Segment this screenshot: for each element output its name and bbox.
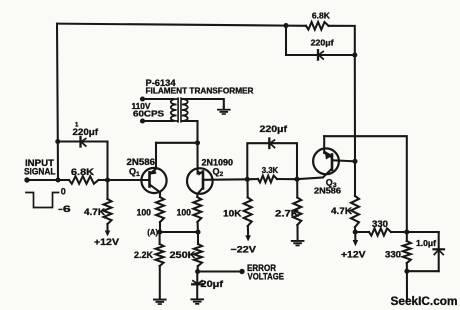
ground below 20uf bbox=[190, 298, 204, 304]
supply -22V arrow bbox=[247, 226, 249, 236]
wire node A to 2.2K bbox=[159, 232, 161, 244]
node input junction bbox=[55, 177, 60, 182]
waveform input step bbox=[26, 193, 59, 208]
transistor Q1 circle bbox=[141, 168, 166, 193]
node collector rail junction bbox=[195, 140, 200, 145]
svg-text:SIGNAL: SIGNAL bbox=[24, 166, 56, 176]
svg-text:250K: 250K bbox=[170, 250, 196, 260]
transistor Q2 circle bbox=[187, 168, 213, 194]
ground transformer secondary bbox=[217, 109, 231, 115]
transistor Q3 circle bbox=[313, 148, 339, 174]
wire rail up to transformer bbox=[196, 121, 198, 143]
wire 220uf mid branch bbox=[247, 143, 297, 179]
wire 330V bottom lead bbox=[406, 263, 408, 271]
transistor Q3 base bar bbox=[331, 155, 334, 170]
svg-text:0: 0 bbox=[61, 187, 66, 197]
inductor transformer secondary coil bbox=[182, 99, 188, 121]
resistor 4.7K right bbox=[351, 196, 359, 227]
svg-text:330: 330 bbox=[385, 250, 401, 260]
wire Q3 top lead bbox=[323, 136, 325, 153]
svg-text:3.3K: 3.3K bbox=[262, 166, 279, 175]
wire combo down to Q3 bbox=[354, 55, 356, 161]
svg-text:220μf: 220μf bbox=[311, 39, 334, 48]
wire Q3 base lead bbox=[297, 178, 323, 180]
capacitor 20uf plate bbox=[192, 283, 203, 285]
svg-text:20μf: 20μf bbox=[201, 279, 225, 289]
resistor 2.2K bbox=[156, 244, 164, 266]
wire Q2 base lead bbox=[203, 178, 247, 181]
wire 1.0uf right branch bbox=[438, 232, 440, 271]
wire Q3 collector rail bbox=[324, 136, 407, 232]
resistor 6.8K top bbox=[306, 22, 329, 30]
node 330V bottom junction bbox=[404, 269, 409, 274]
ground below 2.2K bbox=[153, 299, 167, 305]
svg-text:220μf: 220μf bbox=[260, 124, 289, 134]
resistor 10K bbox=[244, 198, 252, 227]
svg-text:Q2: Q2 bbox=[213, 166, 224, 178]
node combo bottom right bbox=[352, 52, 357, 57]
svg-text:6.8K: 6.8K bbox=[312, 11, 330, 20]
transistor Q1 base bar bbox=[148, 172, 151, 186]
transistor Q1 collector diagonal bbox=[150, 169, 156, 174]
wire Q1 collector up bbox=[155, 143, 157, 169]
svg-text:Q1: Q1 bbox=[129, 167, 140, 179]
resistor 100 Q1 bbox=[156, 197, 164, 222]
wire 6.8K top leads bbox=[286, 25, 306, 27]
supply +12V left arrow bbox=[106, 224, 108, 232]
wire 1.0uf loop bottom bbox=[407, 270, 439, 272]
wire combo bottom bbox=[286, 54, 355, 56]
wire primary bottom lead bbox=[143, 120, 174, 122]
wire 250K to error node bbox=[197, 266, 199, 272]
wire 6.8K to Q1 base bbox=[99, 179, 150, 181]
svg-text:1.0μf: 1.0μf bbox=[416, 238, 436, 248]
wire collector rail Q1-Q2 bbox=[156, 142, 198, 144]
wire 2.2K to ground bbox=[159, 266, 161, 299]
svg-text:2.7K: 2.7K bbox=[275, 208, 299, 218]
resistor 330 horizontal bbox=[369, 228, 391, 235]
wire 100 Q2 to node A bbox=[197, 222, 199, 232]
wire node A to 250K bbox=[197, 232, 199, 244]
wire left vertical bbox=[57, 24, 58, 180]
node A right bbox=[195, 229, 200, 234]
wire top rail bbox=[57, 24, 286, 26]
capacitor 220uf top plate bbox=[317, 50, 319, 59]
wire Q3 base out to junction bbox=[332, 160, 355, 161]
resistor 2.7K bbox=[293, 198, 301, 226]
capacitor 220uf mid arrow bbox=[270, 140, 275, 148]
resistor 100 Q2 bbox=[193, 197, 201, 222]
svg-text:SeekIC.com: SeekIC.com bbox=[391, 295, 458, 308]
transistor Q1 emitter diagonal bbox=[150, 185, 160, 192]
node 3.3K left junction bbox=[245, 177, 250, 182]
inductor transformer primary coil bbox=[171, 99, 177, 121]
wire 330 horizontal leads bbox=[355, 231, 369, 233]
wire combo left vertical bbox=[285, 26, 287, 55]
node 4.7K bottom junction bbox=[353, 229, 358, 234]
svg-text:VOLTAGE: VOLTAGE bbox=[248, 271, 285, 281]
node top combo left bbox=[283, 23, 288, 28]
wire 330V top lead bbox=[406, 232, 408, 241]
wire primary top lead bbox=[143, 98, 174, 100]
capacitor 20uf arrow bbox=[193, 281, 202, 284]
wire 220uf branch left bbox=[58, 142, 108, 181]
node cap branch junction bbox=[55, 139, 60, 144]
resistor 3.3K bbox=[258, 176, 277, 183]
svg-text:+12V: +12V bbox=[94, 237, 120, 247]
svg-text:100: 100 bbox=[177, 207, 192, 217]
node error voltage terminal bbox=[239, 269, 244, 274]
capacitor 1.0uf arrow bbox=[434, 250, 443, 255]
node 6.8K right junction bbox=[105, 177, 110, 182]
node 3.3K right junction bbox=[294, 177, 299, 182]
svg-text:10K: 10K bbox=[223, 208, 242, 219]
wire 2.7K to ground bbox=[296, 225, 298, 240]
wire Q3 junction to 4.7K bbox=[354, 161, 356, 196]
resistor 6.8K input bbox=[69, 176, 99, 184]
supply +12V right arrow bbox=[354, 232, 356, 241]
svg-text:−22V: −22V bbox=[231, 244, 258, 254]
transistor Q3 emitter diagonal from top bbox=[324, 153, 331, 157]
wire node A bbox=[160, 231, 198, 233]
svg-text:4.7K: 4.7K bbox=[331, 206, 353, 216]
resistor 250K bbox=[194, 244, 202, 266]
transistor Q2 base bar bbox=[202, 172, 205, 189]
resistor 4.7K left bbox=[104, 199, 112, 224]
capacitor 220uf top arrow bbox=[319, 52, 324, 60]
wire 3.3K leads bbox=[247, 178, 258, 180]
wire 100 to node A bbox=[159, 222, 161, 232]
wire junction to 4.7K bbox=[106, 180, 108, 199]
transistor Q3 collector diagonal bbox=[323, 169, 331, 177]
wire Q2 emitter down bbox=[196, 194, 198, 197]
capacitor 220uf mid plate bbox=[268, 139, 270, 149]
svg-text:+12V: +12V bbox=[341, 250, 366, 260]
node error voltage junction bbox=[195, 269, 200, 274]
node 330 junction bbox=[404, 229, 409, 234]
node Q3 right junction bbox=[352, 159, 357, 164]
wire secondary top lead bbox=[182, 99, 224, 107]
capacitor 1.0uf plate bbox=[434, 248, 445, 250]
svg-text:6.8K: 6.8K bbox=[71, 167, 95, 177]
svg-text:4.7K: 4.7K bbox=[84, 207, 106, 217]
svg-text:100: 100 bbox=[137, 207, 152, 217]
svg-text:330: 330 bbox=[372, 219, 388, 229]
node input terminal bbox=[24, 177, 29, 182]
wire input lead bbox=[27, 179, 69, 181]
svg-text:2N586: 2N586 bbox=[314, 185, 341, 195]
wire 10K from base node bbox=[246, 179, 248, 197]
svg-text:FILAMENT TRANSFORMER: FILAMENT TRANSFORMER bbox=[146, 87, 254, 96]
wire Q2 collector from rail bbox=[196, 143, 198, 174]
svg-text:2.2K: 2.2K bbox=[134, 250, 154, 260]
transformer core bbox=[177, 97, 179, 122]
wire error voltage tap bbox=[198, 270, 242, 272]
ground below 2.7K bbox=[291, 240, 305, 246]
transistor Q2 emitter diagonal bbox=[198, 188, 203, 194]
resistor 330 vertical bbox=[403, 241, 411, 263]
wire error node down bbox=[196, 272, 198, 299]
wire Q1 emitter down bbox=[159, 192, 161, 197]
transformer P-6134 primary terminals bbox=[140, 96, 145, 101]
svg-text:(A): (A) bbox=[147, 228, 158, 237]
wire 1.0uf loop top bbox=[407, 231, 439, 233]
capacitor 220uf input arrow bbox=[81, 139, 86, 147]
transistor Q2 collector diagonal bbox=[198, 172, 203, 174]
wire bottom stub bbox=[406, 271, 408, 299]
svg-text:60CPS: 60CPS bbox=[133, 108, 164, 118]
wire 2.7K from right node bbox=[296, 179, 298, 197]
capacitor 220uf input plate bbox=[79, 137, 81, 147]
svg-text:-6: -6 bbox=[58, 204, 70, 214]
node A left bbox=[157, 229, 162, 234]
wire secondary bottom lead bbox=[182, 120, 198, 122]
